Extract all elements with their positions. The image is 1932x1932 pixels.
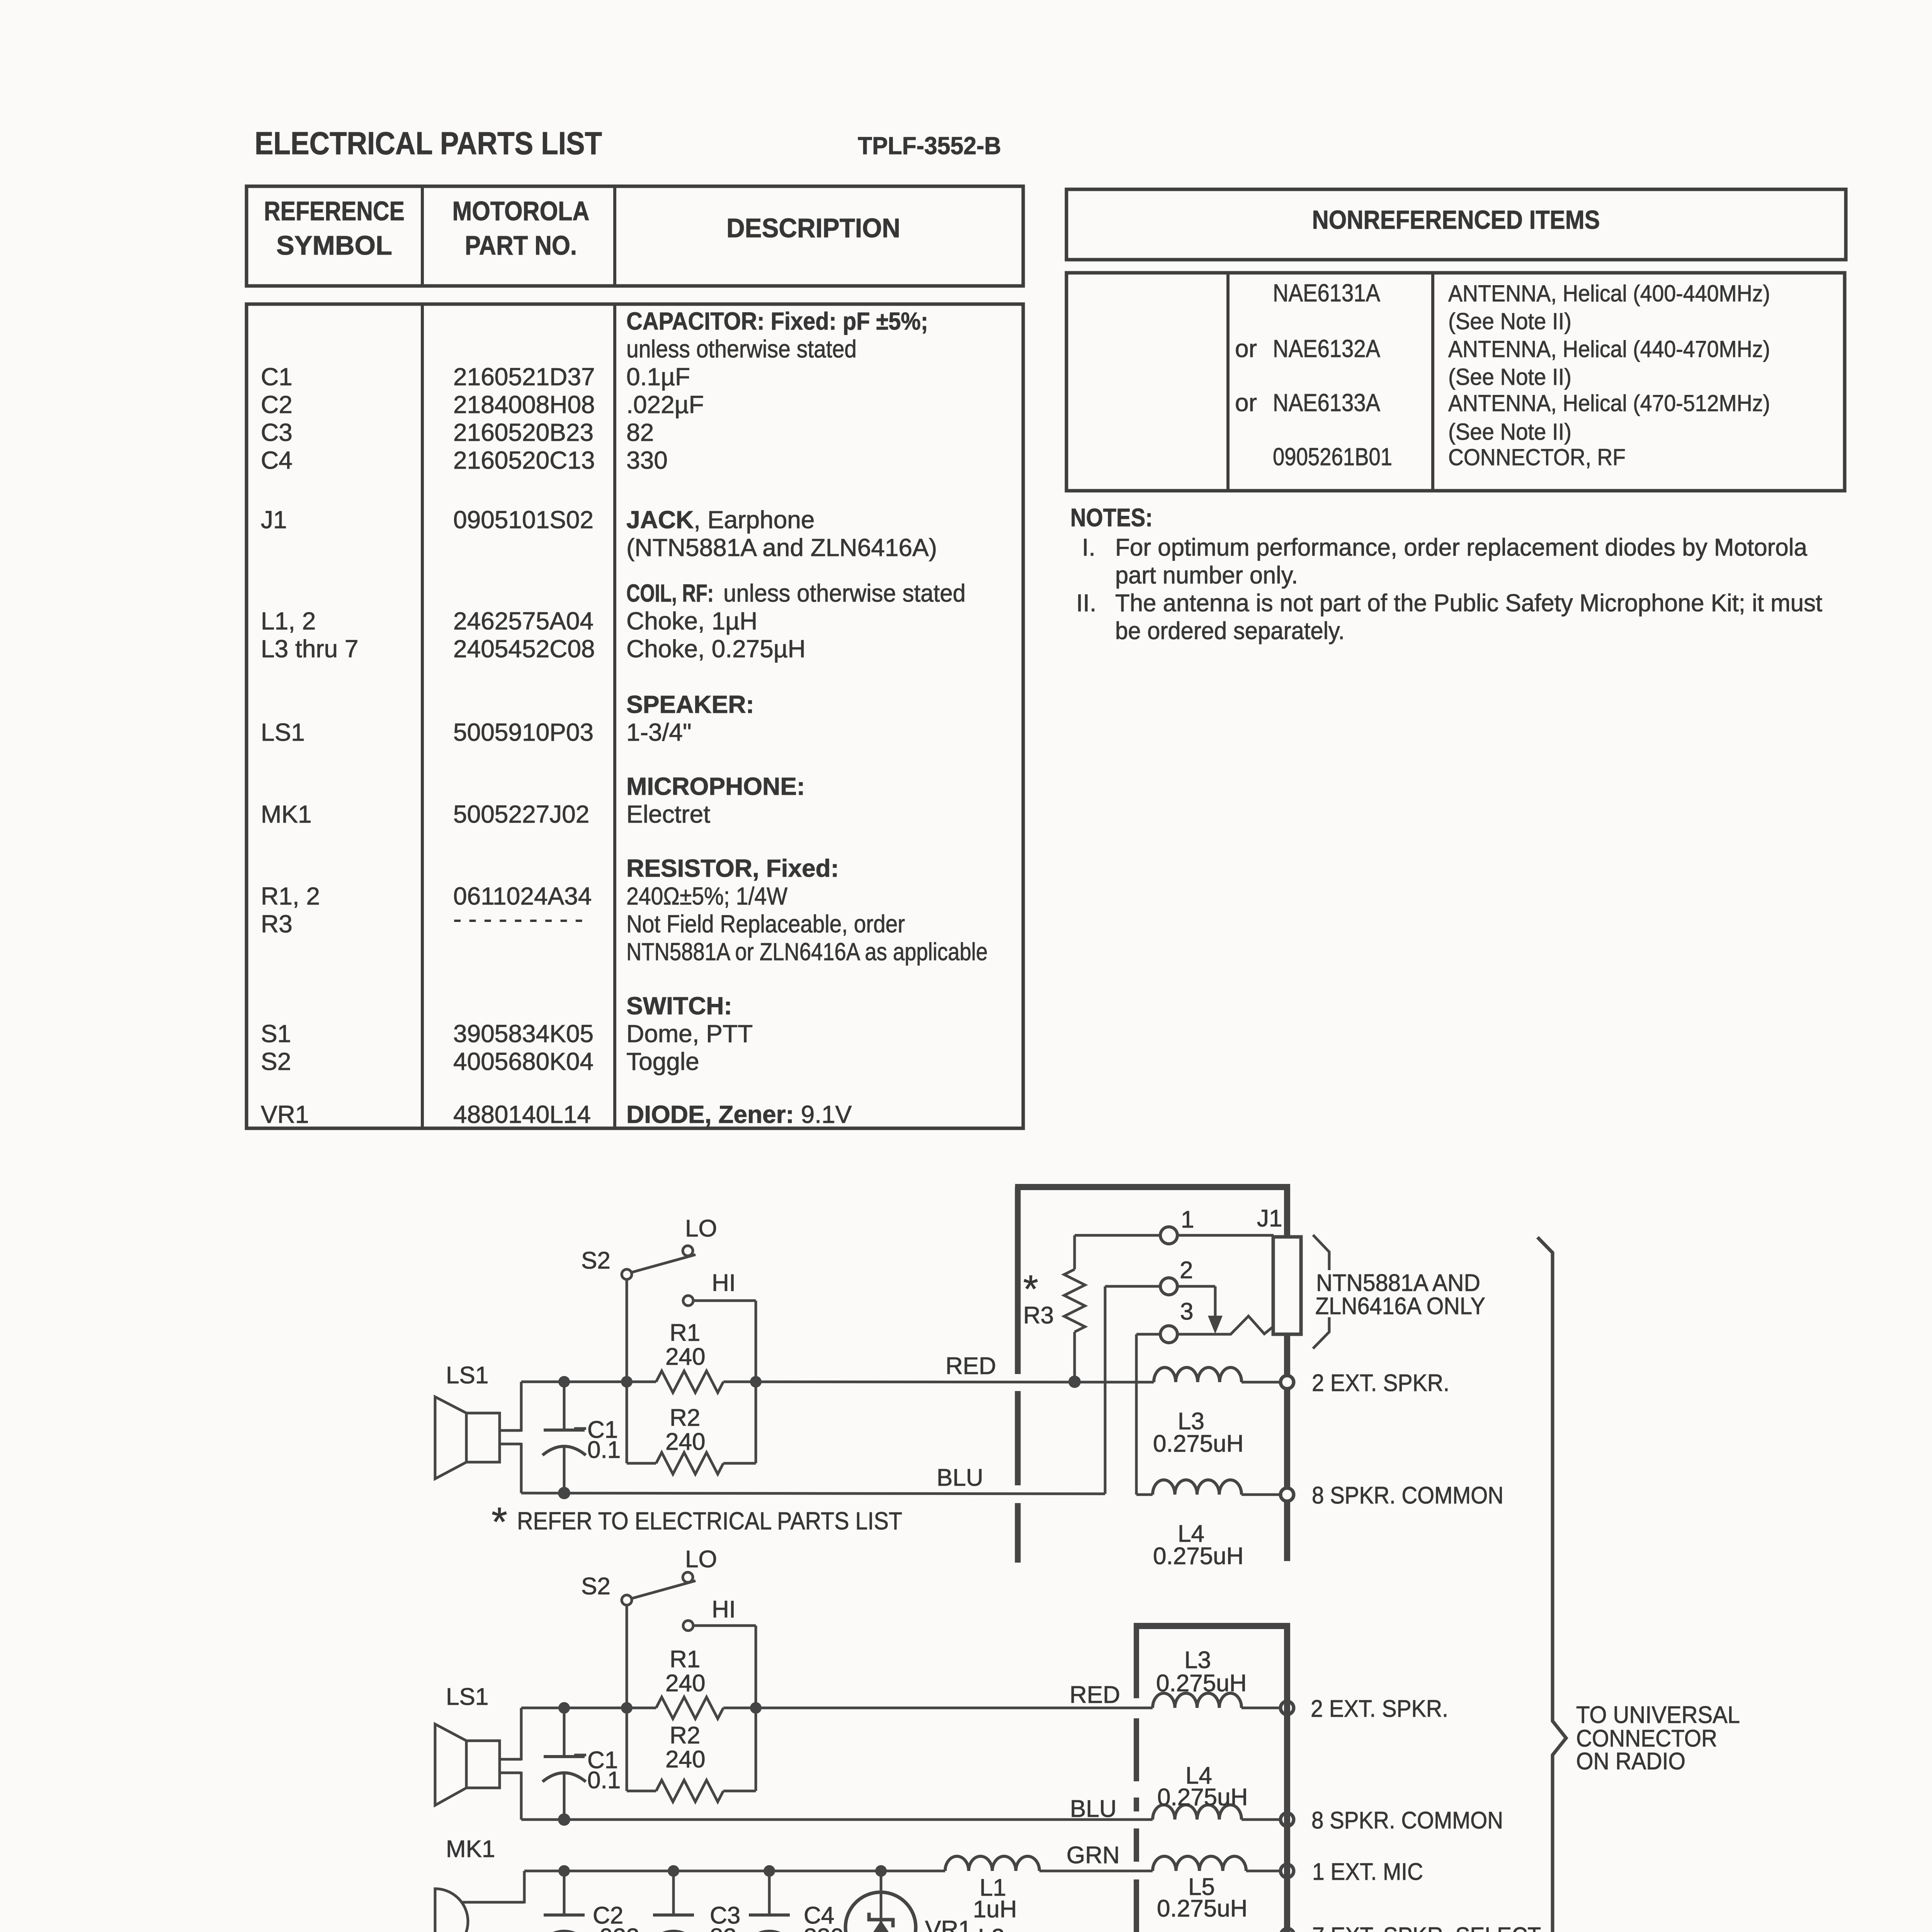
svg-text:L3: L3 — [1184, 1647, 1211, 1673]
capacitor C1 — [563, 1708, 566, 1757]
svg-text:Toggle: Toggle — [626, 1048, 699, 1075]
svg-text:TPLF-3552-B: TPLF-3552-B — [858, 132, 1001, 160]
svg-text:RED: RED — [946, 1353, 996, 1379]
svg-text:JACK, Earphone: JACK, Earphone — [626, 506, 815, 534]
svg-text:R1: R1 — [670, 1320, 700, 1346]
svg-text:240Ω±5%; 1/4W: 240Ω±5%; 1/4W — [626, 882, 788, 910]
svg-text:2 EXT. SPKR.: 2 EXT. SPKR. — [1311, 1696, 1448, 1722]
svg-text:REFER TO ELECTRICAL PARTS LIST: REFER TO ELECTRICAL PARTS LIST — [517, 1507, 902, 1535]
svg-text:2 EXT. SPKR.: 2 EXT. SPKR. — [1312, 1370, 1449, 1396]
svg-text:2184008H08: 2184008H08 — [453, 391, 595, 418]
svg-text:L1, 2: L1, 2 — [261, 607, 316, 635]
svg-text:8 SPKR. COMMON: 8 SPKR. COMMON — [1311, 1807, 1503, 1834]
svg-text:LO: LO — [685, 1546, 717, 1573]
svg-text:LO: LO — [685, 1215, 717, 1242]
svg-text:NTN5881A or ZLN6416A as applic: NTN5881A or ZLN6416A as applicable — [626, 938, 988, 966]
accessory connector boundary (top box) — [1015, 1184, 1290, 1190]
terminal 2 EXT. SPKR. — [1281, 1376, 1294, 1389]
svg-text:I.: I. — [1082, 534, 1095, 561]
svg-text:C4: C4 — [261, 446, 293, 474]
svg-text:NAE6131A: NAE6131A — [1273, 279, 1380, 307]
inductor L3 (lower) — [1153, 1693, 1242, 1708]
svg-text:NTN5881A AND: NTN5881A AND — [1316, 1270, 1480, 1296]
svg-text:7 EXT. SPKR. SELECT: 7 EXT. SPKR. SELECT — [1312, 1923, 1541, 1932]
microphone MK1 — [435, 1889, 468, 1932]
svg-text:0.275uH: 0.275uH — [1156, 1670, 1247, 1697]
wire BLU (lower) — [521, 1818, 1153, 1821]
svg-text:240: 240 — [665, 1670, 705, 1697]
resistor R1 — [656, 1697, 723, 1719]
svg-text:(See Note II): (See Note II) — [1448, 308, 1571, 334]
svg-text:unless otherwise stated: unless otherwise stated — [626, 335, 857, 363]
jack J1 pin 3 — [1136, 1333, 1160, 1336]
svg-text:HI: HI — [712, 1596, 736, 1623]
svg-text:DESCRIPTION: DESCRIPTION — [726, 213, 900, 243]
svg-text:Electret: Electret — [626, 800, 710, 828]
svg-text:MK1: MK1 — [261, 800, 312, 828]
svg-text:2160521D37: 2160521D37 — [453, 363, 595, 391]
svg-text:ELECTRICAL PARTS LIST: ELECTRICAL PARTS LIST — [255, 125, 602, 161]
svg-text:MOTOROLA: MOTOROLA — [452, 196, 590, 226]
switch S2 HI contact — [683, 1296, 693, 1306]
svg-text:0.275uH: 0.275uH — [1153, 1543, 1243, 1570]
svg-text:2405452C08: 2405452C08 — [453, 635, 595, 663]
svg-text:S2: S2 — [261, 1048, 291, 1075]
inductor L1 — [945, 1856, 1039, 1871]
resistor R2 — [626, 1382, 628, 1463]
svg-text:NAE6132A: NAE6132A — [1273, 335, 1380, 362]
svg-text:DIODE, Zener: 9.1V: DIODE, Zener: 9.1V — [626, 1100, 852, 1128]
svg-text:1 EXT. MIC: 1 EXT. MIC — [1312, 1859, 1423, 1885]
terminal 1 EXT. MIC — [1281, 1864, 1294, 1878]
speaker LS1 — [466, 1413, 500, 1462]
svg-text:part number only.: part number only. — [1115, 562, 1298, 589]
svg-text:R2: R2 — [670, 1722, 700, 1749]
switch S2 HI contact — [683, 1621, 693, 1631]
svg-text:L2: L2 — [978, 1924, 1005, 1932]
svg-text:VR1: VR1 — [925, 1916, 972, 1932]
svg-text:4880140L14: 4880140L14 — [453, 1100, 591, 1128]
svg-text:ON RADIO: ON RADIO — [1576, 1748, 1685, 1775]
svg-text:8 SPKR. COMMON: 8 SPKR. COMMON — [1312, 1482, 1503, 1509]
node dots — [558, 1376, 570, 1388]
resistor R3 — [1073, 1235, 1076, 1269]
svg-text:R2: R2 — [670, 1405, 700, 1431]
terminal 8 SPKR. COMMON — [1281, 1488, 1294, 1501]
svg-text:0.275uH: 0.275uH — [1157, 1895, 1247, 1922]
svg-text:LS1: LS1 — [446, 1362, 488, 1389]
wire RED top — [521, 1381, 656, 1383]
svg-text:3905834K05: 3905834K05 — [453, 1020, 594, 1048]
accessory connector boundary (lower box) — [1134, 1623, 1290, 1629]
inductor L3 — [1154, 1367, 1242, 1382]
svg-text:C2: C2 — [261, 391, 293, 418]
svg-text:NAE6133A: NAE6133A — [1273, 389, 1380, 417]
svg-text:S2: S2 — [581, 1573, 611, 1600]
svg-text:240: 240 — [665, 1429, 705, 1455]
svg-text:0.1: 0.1 — [587, 1437, 621, 1463]
svg-text:S1: S1 — [261, 1020, 291, 1048]
capacitor C2 — [563, 1871, 566, 1915]
svg-text:.022µF: .022µF — [626, 391, 704, 418]
svg-text:82: 82 — [710, 1924, 736, 1932]
svg-text:HI: HI — [712, 1270, 736, 1296]
svg-text:5005910P03: 5005910P03 — [453, 718, 594, 746]
svg-text:J1: J1 — [261, 506, 287, 534]
svg-text:.022: .022 — [593, 1924, 639, 1932]
svg-text:or: or — [1235, 389, 1257, 417]
brace TO UNIVERSAL CONNECTOR ON RADIO — [1537, 1237, 1566, 1932]
svg-text:3: 3 — [1180, 1298, 1193, 1325]
svg-text:LS1: LS1 — [261, 718, 305, 746]
svg-text:ANTENNA, Helical (440-470MHz): ANTENNA, Helical (440-470MHz) — [1448, 336, 1770, 362]
svg-text:1uH: 1uH — [973, 1896, 1017, 1923]
svg-text:REFERENCE: REFERENCE — [264, 196, 405, 226]
svg-text:NONREFERENCED ITEMS: NONREFERENCED ITEMS — [1312, 205, 1600, 235]
svg-text:unless otherwise stated: unless otherwise stated — [723, 579, 966, 607]
terminal 8 SPKR. COMMON (lower) — [1281, 1813, 1294, 1826]
svg-text:(NTN5881A and ZLN6416A): (NTN5881A and ZLN6416A) — [626, 534, 937, 561]
svg-text:0.275uH: 0.275uH — [1153, 1430, 1243, 1457]
svg-text:SPEAKER:: SPEAKER: — [626, 690, 754, 718]
svg-text:L3 thru 7: L3 thru 7 — [261, 635, 359, 663]
jack J1 body — [1273, 1237, 1301, 1334]
svg-text:0.1: 0.1 — [587, 1767, 621, 1794]
svg-text:R1: R1 — [670, 1646, 700, 1673]
wire BLU bottom — [521, 1493, 1105, 1494]
terminal 7 EXT. SPKR. SELECT — [1281, 1929, 1294, 1932]
svg-text:ZLN6416A ONLY: ZLN6416A ONLY — [1315, 1293, 1485, 1320]
switch S2 (top, HI/LO) — [683, 1246, 693, 1256]
svg-text:R3: R3 — [1023, 1302, 1054, 1329]
speaker LS1 — [466, 1741, 500, 1788]
svg-text:C3: C3 — [261, 418, 293, 446]
svg-text:4005680K04: 4005680K04 — [453, 1048, 594, 1075]
svg-text:BLU: BLU — [937, 1464, 983, 1491]
svg-text:(See Note II): (See Note II) — [1448, 419, 1571, 445]
svg-text:J1: J1 — [1257, 1205, 1282, 1232]
brace NTN/ZLN note — [1313, 1235, 1329, 1270]
terminal 2 EXT. SPKR. (lower) — [1281, 1701, 1294, 1714]
svg-text:2462575A04: 2462575A04 — [453, 607, 594, 635]
jack J1 pin 2 — [1104, 1286, 1107, 1494]
svg-text:CONNECTOR, RF: CONNECTOR, RF — [1448, 444, 1626, 470]
svg-text:NOTES:: NOTES: — [1070, 503, 1153, 532]
svg-text:LS1: LS1 — [446, 1684, 488, 1710]
svg-text:BLU: BLU — [1070, 1796, 1117, 1822]
jack J1 pin 1 — [1075, 1234, 1160, 1237]
capacitor C1 — [563, 1382, 566, 1430]
svg-text:or: or — [1235, 335, 1257, 362]
inductor L5 — [1153, 1856, 1246, 1871]
svg-text:1-3/4": 1-3/4" — [626, 718, 692, 746]
svg-text:5005227J02: 5005227J02 — [453, 800, 589, 828]
svg-text:R3: R3 — [261, 910, 293, 938]
node dots — [558, 1702, 570, 1714]
svg-text:82: 82 — [626, 418, 654, 446]
svg-text:2160520C13: 2160520C13 — [453, 446, 595, 474]
svg-text:0905261B01: 0905261B01 — [1273, 443, 1392, 471]
svg-text:ANTENNA, Helical (400-440MHz): ANTENNA, Helical (400-440MHz) — [1448, 281, 1770, 306]
wire to L4 — [1136, 1493, 1153, 1496]
svg-text:240: 240 — [665, 1746, 705, 1773]
svg-text:---------: --------- — [453, 905, 590, 933]
inductor L4 — [1153, 1480, 1242, 1495]
svg-text:330: 330 — [626, 446, 668, 474]
svg-text:The antenna is not part of the: The antenna is not part of the Public Sa… — [1115, 590, 1822, 617]
svg-text:Not Field Replaceable, order: Not Field Replaceable, order — [626, 910, 905, 938]
svg-text:For optimum performance, order: For optimum performance, order replaceme… — [1115, 534, 1808, 561]
svg-text:2160520B23: 2160520B23 — [453, 418, 594, 446]
svg-text:Choke, 1µH: Choke, 1µH — [626, 607, 757, 635]
resistor R2 — [626, 1708, 628, 1791]
svg-text:VR1: VR1 — [261, 1100, 309, 1128]
svg-text:COIL, RF:: COIL, RF: — [626, 579, 714, 607]
svg-text:ANTENNA, Helical (470-512MHz): ANTENNA, Helical (470-512MHz) — [1448, 390, 1770, 416]
svg-text:SYMBOL: SYMBOL — [276, 230, 392, 260]
svg-text:PART NO.: PART NO. — [465, 230, 577, 260]
svg-text:240: 240 — [665, 1344, 705, 1370]
svg-text:S2: S2 — [581, 1247, 611, 1274]
switch S2 (lower circuit) — [683, 1572, 693, 1582]
svg-text:(See Note II): (See Note II) — [1448, 364, 1571, 390]
wire RED (lower) — [521, 1707, 656, 1709]
svg-text:2: 2 — [1180, 1257, 1193, 1284]
mic top bus (GRN) — [524, 1870, 945, 1872]
node dots on buses — [558, 1865, 570, 1877]
svg-text:C1: C1 — [261, 363, 293, 391]
svg-text:Dome, PTT: Dome, PTT — [626, 1020, 753, 1048]
svg-text:330: 330 — [804, 1924, 844, 1932]
svg-text:0.275uH: 0.275uH — [1157, 1784, 1248, 1811]
capacitor C3 — [672, 1871, 675, 1915]
resistor R1 — [656, 1371, 723, 1393]
svg-text:MICROPHONE:: MICROPHONE: — [626, 772, 805, 800]
svg-text:TO UNIVERSAL: TO UNIVERSAL — [1576, 1702, 1740, 1728]
inductor L4 (lower) — [1153, 1805, 1242, 1820]
svg-text:SWITCH:: SWITCH: — [626, 992, 732, 1020]
svg-text:II.: II. — [1076, 590, 1097, 617]
svg-text:R1, 2: R1, 2 — [261, 882, 320, 910]
svg-text:Choke, 0.275µH: Choke, 0.275µH — [626, 635, 806, 663]
svg-text:*: * — [492, 1499, 507, 1544]
svg-text:1: 1 — [1181, 1206, 1194, 1233]
svg-text:MK1: MK1 — [446, 1836, 495, 1862]
diode VR1 (zener) — [880, 1871, 883, 1932]
svg-text:0905101S02: 0905101S02 — [453, 506, 594, 534]
svg-text:CAPACITOR: Fixed: pF ±5%;: CAPACITOR: Fixed: pF ±5%; — [626, 307, 928, 335]
svg-text:RED: RED — [1070, 1682, 1120, 1708]
svg-text:RESISTOR, Fixed:: RESISTOR, Fixed: — [626, 854, 839, 882]
svg-text:be ordered separately.: be ordered separately. — [1115, 617, 1345, 645]
capacitor C4 — [768, 1871, 771, 1915]
svg-text:GRN: GRN — [1066, 1842, 1120, 1869]
svg-text:0.1µF: 0.1µF — [626, 363, 690, 391]
